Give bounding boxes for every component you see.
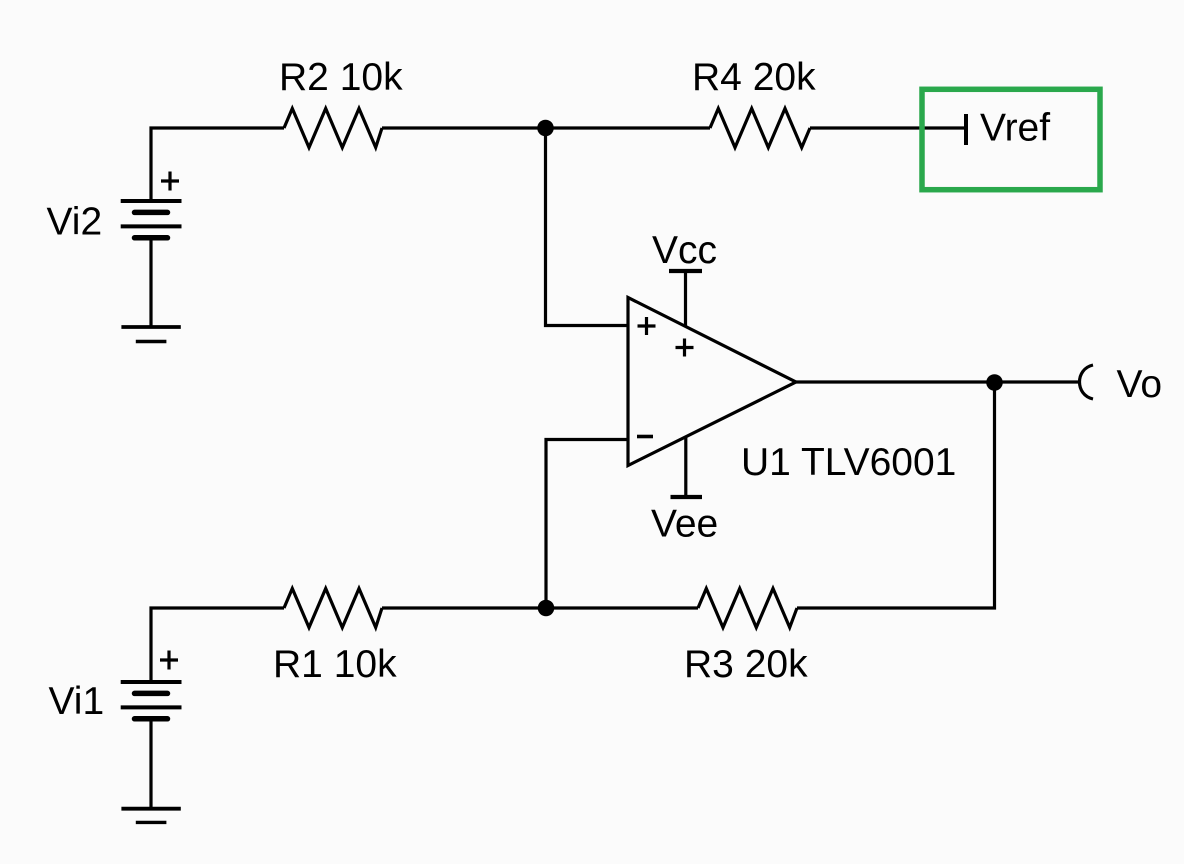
op-amp U1 triangle <box>628 298 796 466</box>
svg-text:R2 10k: R2 10k <box>279 56 403 99</box>
junction node Vout <box>986 374 1003 391</box>
svg-text:Vcc: Vcc <box>652 229 717 272</box>
svg-text:R4 20k: R4 20k <box>692 56 816 99</box>
wire R2 to node A <box>382 126 546 129</box>
resistor R3 <box>698 589 797 628</box>
voltage source Vi1 plus mark <box>160 651 178 670</box>
power Vee rail bar <box>671 495 703 499</box>
wire node A to R4 <box>546 126 711 129</box>
wire Vout down to R3 <box>797 383 995 609</box>
wire Vi2 to ground <box>149 238 152 327</box>
wire op-amp inverting input to node B <box>546 440 628 609</box>
svg-text:Vi2: Vi2 <box>47 201 103 244</box>
resistor R4 <box>710 109 810 148</box>
wire node B to R1 <box>382 606 546 609</box>
svg-text:Vref: Vref <box>980 107 1050 150</box>
power Vcc rail bar <box>669 269 702 273</box>
svg-text:Vee: Vee <box>651 503 718 546</box>
voltage source Vi1 battery <box>121 682 182 719</box>
wire op-amp output to Vo <box>796 380 1079 383</box>
svg-text:R1 10k: R1 10k <box>273 643 397 686</box>
resistor R1 <box>284 589 382 628</box>
power Vee pin wire <box>684 437 687 498</box>
ground for Vi2 <box>121 327 180 342</box>
wire Vi1 to ground <box>149 719 152 809</box>
svg-text:Vi1: Vi1 <box>49 680 105 723</box>
op-amp positive supply + mark <box>676 339 694 357</box>
voltage source Vi2 battery <box>121 201 182 238</box>
terminal Vref pin bar <box>964 114 968 145</box>
svg-text:U1 TLV6001: U1 TLV6001 <box>741 441 956 484</box>
terminal Vo open pin arc <box>1080 365 1094 399</box>
wire R3 to node B <box>546 606 698 609</box>
wire R4 to Vref terminal <box>810 126 966 129</box>
svg-text:Vo: Vo <box>1117 363 1163 406</box>
wire Vi2 top lead to R2 <box>151 128 284 201</box>
junction node B <box>538 600 555 617</box>
wire node A to op-amp noninverting input <box>546 128 629 326</box>
ground for Vi1 <box>121 809 180 823</box>
junction node A <box>537 120 554 137</box>
power Vcc pin wire <box>684 271 687 327</box>
resistor R2 <box>284 109 382 148</box>
highlight box around Vref <box>922 89 1100 189</box>
svg-text:R3 20k: R3 20k <box>684 643 808 686</box>
op-amp + input mark <box>638 317 656 335</box>
op-amp - input mark <box>637 435 653 439</box>
voltage source Vi2 plus mark <box>161 172 179 191</box>
wire R1 to Vi1 <box>151 608 284 682</box>
